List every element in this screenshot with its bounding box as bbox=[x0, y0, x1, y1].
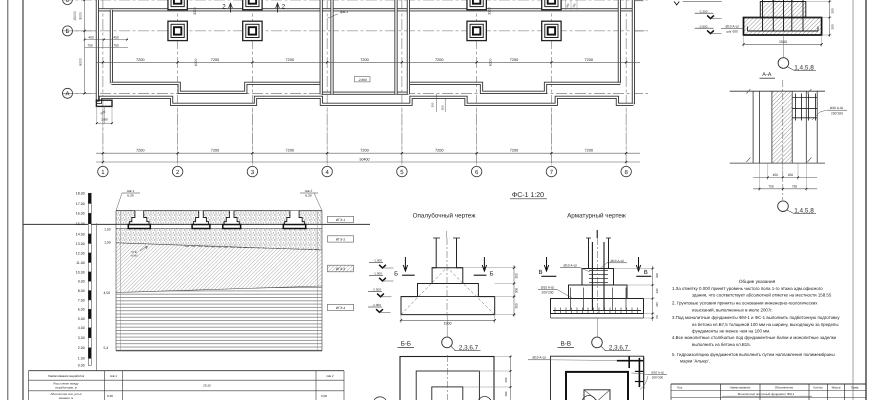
svg-text:16.00: 16.00 bbox=[76, 212, 85, 216]
svg-text:6,30: 6,30 bbox=[305, 194, 312, 198]
svg-text:6.00: 6.00 bbox=[78, 308, 85, 312]
svg-text:15000: 15000 bbox=[73, 11, 77, 21]
svg-text:750: 750 bbox=[768, 185, 774, 189]
V-V plan: mesh square bold bbox=[566, 372, 628, 400]
svg-text:скв 2: скв 2 bbox=[326, 374, 333, 378]
reinforcement: blinding layer line bbox=[551, 317, 644, 319]
plan: right exterior wall outer face bbox=[632, 0, 635, 104]
svg-text:29,15: 29,15 bbox=[203, 384, 211, 388]
svg-text:А: А bbox=[65, 91, 69, 98]
plan: column circle 3 bbox=[247, 166, 257, 176]
plan: left exterior wall outer face bbox=[96, 0, 99, 102]
reinforcement: leader circle 2,3,6,7 bbox=[596, 318, 598, 337]
top detail: hatched footing body bbox=[744, 0, 822, 35]
plan: column circle 8 bbox=[621, 166, 631, 176]
svg-text:13.00: 13.00 bbox=[76, 242, 85, 246]
svg-text:А-А: А-А bbox=[762, 72, 772, 78]
svg-text:Б: Б bbox=[490, 270, 494, 277]
svg-text:-1.000: -1.000 bbox=[373, 259, 382, 263]
svg-text:2: 2 bbox=[282, 4, 286, 11]
column footing at (477,31) bbox=[467, 21, 486, 40]
svg-text:2. Грунтовые условия приняты н: 2. Грунтовые условия приняты на основани… bbox=[672, 301, 818, 306]
reinforcement: step bars bbox=[570, 288, 572, 311]
geology: groundwater dashed line bbox=[185, 246, 322, 249]
formwork: section mark B right bbox=[482, 257, 486, 271]
A-A: hatched wall core bbox=[772, 91, 792, 163]
plan: top exterior wall (double line) bbox=[96, 8, 633, 11]
svg-text:3300: 3300 bbox=[193, 7, 197, 15]
svg-text:-1.900: -1.900 bbox=[373, 272, 382, 276]
svg-text:7.00: 7.00 bbox=[78, 298, 85, 302]
svg-text:7200: 7200 bbox=[286, 58, 294, 62]
column footing at (551,0) bbox=[542, 0, 561, 10]
svg-text:Ø10 А-Ш: Ø10 А-Ш bbox=[541, 285, 554, 289]
svg-text:Ø10 А-Ш: Ø10 А-Ш bbox=[563, 264, 576, 268]
svg-text:750: 750 bbox=[87, 43, 93, 47]
svg-text:7200: 7200 bbox=[435, 149, 443, 153]
plan: right side row leader stubs bbox=[634, 30, 644, 32]
svg-text:4.00: 4.00 bbox=[78, 326, 85, 330]
reinforcement: stirrup ladder bbox=[589, 270, 608, 272]
svg-text:7200: 7200 bbox=[510, 58, 518, 62]
svg-text:7200: 7200 bbox=[211, 58, 219, 62]
svg-text:Ø10 А-Ш: Ø10 А-Ш bbox=[725, 24, 738, 28]
svg-text:ИГЭ-2: ИГЭ-2 bbox=[336, 238, 346, 242]
plan: column circle 4 bbox=[322, 166, 332, 176]
reinforcement: center axis dashed bbox=[596, 238, 598, 316]
svg-text:750: 750 bbox=[792, 185, 798, 189]
svg-text:17.00: 17.00 bbox=[76, 202, 85, 206]
svg-text:выработками, м: выработками, м bbox=[55, 385, 76, 389]
sheet frame right border bbox=[865, 0, 867, 400]
svg-text:7200: 7200 bbox=[136, 149, 144, 153]
svg-text:Б-Б: Б-Б bbox=[401, 341, 411, 348]
plan: vertical grid line 1 bbox=[102, 0, 104, 166]
svg-text:300: 300 bbox=[514, 273, 518, 279]
svg-text:изысканий, выполненных в июле: изысканий, выполненных в июле 2007г. bbox=[692, 308, 773, 313]
plan: row circle В bbox=[63, 0, 73, 5]
sheet frame right inner line bbox=[852, 0, 854, 400]
svg-text:-2.800: -2.800 bbox=[372, 303, 381, 307]
formwork: dashed diagonals and axis bbox=[401, 268, 447, 315]
plan: bottom wall inner face with steps bbox=[111, 83, 620, 92]
svg-text:скв 1: скв 1 bbox=[127, 189, 135, 193]
plan: bottom overall dimension 50400 bbox=[96, 161, 640, 163]
svg-text:6,30: 6,30 bbox=[127, 194, 134, 198]
svg-text:14.00: 14.00 bbox=[76, 232, 85, 236]
svg-text:8,30: 8,30 bbox=[107, 394, 113, 398]
svg-text:3300: 3300 bbox=[488, 7, 492, 15]
A-A: rebar mesh bbox=[792, 97, 817, 99]
A-A: dims 450/450 bbox=[767, 163, 769, 180]
reinforcement: section mark V right bbox=[636, 257, 640, 271]
svg-text:50: 50 bbox=[655, 315, 659, 319]
plan: stair pit right wall (grid 5) bbox=[394, 0, 397, 94]
B-B plan: center axis bbox=[446, 355, 448, 400]
formwork: dimension 1500 bbox=[400, 315, 402, 324]
reinforcement: column bbox=[588, 238, 590, 269]
geology: buried stepped footing at x=201.0 bbox=[193, 211, 208, 225]
geology: buried stepped footing at x=294.5 bbox=[285, 211, 305, 225]
svg-text:9.00: 9.00 bbox=[78, 280, 85, 284]
svg-text:1.00: 1.00 bbox=[78, 357, 85, 361]
svg-text:В: В bbox=[644, 269, 648, 276]
svg-text:скважин, м: скважин, м bbox=[59, 396, 74, 400]
geology: borehole 1 axis bbox=[120, 211, 122, 351]
geology: IGE-4 label bbox=[328, 304, 354, 310]
formwork: column bbox=[435, 238, 437, 268]
svg-text:1,4,5,8: 1,4,5,8 bbox=[794, 207, 814, 214]
svg-text:выполнить из бетона кл.В15.: выполнить из бетона кл.В15. bbox=[692, 342, 751, 347]
formwork: stepped footing outline bbox=[401, 268, 495, 315]
plan: left vertical dimension line bbox=[84, 0, 86, 93]
plan: vertical grid line 2 bbox=[177, 0, 179, 166]
plan: bottom dimension line 7200s bbox=[96, 152, 640, 154]
top detail: right 300 dims bbox=[806, 1, 832, 3]
title block table bbox=[671, 383, 866, 385]
svg-text:7200: 7200 bbox=[435, 58, 443, 62]
svg-text:Б: Б bbox=[66, 28, 70, 35]
svg-text:Ø10 А-Ш: Ø10 А-Ш bbox=[610, 259, 623, 263]
svg-text:1500: 1500 bbox=[101, 118, 108, 122]
column footing at (178,0) bbox=[168, 0, 187, 10]
svg-text:200*200: 200*200 bbox=[831, 112, 843, 116]
geology: IGE-2 label bbox=[328, 236, 354, 242]
formwork: right 300 dim chain bbox=[495, 283, 516, 285]
svg-text:600: 600 bbox=[504, 377, 508, 382]
svg-text:7200: 7200 bbox=[585, 149, 593, 153]
plan: vertical grid line 4 bbox=[326, 0, 328, 166]
geology: buried stepped footing at x=139.3 bbox=[130, 211, 149, 225]
svg-text:3.Под монолитные фундаменты ФМ: 3.Под монолитные фундаменты ФМ-1 и ФС-1 … bbox=[672, 315, 840, 320]
svg-text:1500: 1500 bbox=[779, 40, 787, 44]
svg-text:-2.500: -2.500 bbox=[372, 287, 381, 291]
svg-text:18.00: 18.00 bbox=[76, 192, 85, 196]
geology: right edge bbox=[321, 211, 323, 351]
svg-text:Б: Б bbox=[394, 270, 398, 277]
svg-text:2.00: 2.00 bbox=[78, 346, 85, 350]
svg-text:Арматурный чертеж: Арматурный чертеж bbox=[567, 213, 627, 220]
top detail: dimension 1500 bbox=[743, 35, 745, 47]
svg-text:фм-1: фм-1 bbox=[340, 10, 348, 14]
plan: pit floor between grid 4 and 5 bbox=[321, 92, 408, 95]
geology: reference level line 15.00 bbox=[23, 223, 370, 225]
svg-text:1500: 1500 bbox=[444, 322, 452, 326]
reinforcement: bottom mesh with ticks bbox=[553, 310, 641, 312]
geology: borehole 2 axis bbox=[316, 211, 318, 351]
reinforcement: section mark V left bbox=[544, 257, 548, 271]
plan: left exterior wall inner face bbox=[110, 10, 113, 84]
plan: horizontal grid line row B bbox=[62, 30, 648, 32]
svg-text:Монолитный ленточный фундамент: Монолитный ленточный фундамент ФМ-1 bbox=[738, 392, 795, 396]
top detail: leader circle 1,4,5,8 bbox=[783, 35, 785, 58]
svg-text:4,50: 4,50 bbox=[103, 291, 110, 295]
svg-text:5. Гидроизоляцию фундаментов: 5. Гидроизоляцию фундаментов выполнить п… bbox=[672, 352, 835, 357]
svg-text:1,4,5,8: 1,4,5,8 bbox=[794, 64, 814, 71]
svg-text:12.00: 12.00 bbox=[76, 251, 85, 255]
svg-text:В-В: В-В bbox=[561, 341, 571, 348]
svg-text:5.00: 5.00 bbox=[78, 317, 85, 321]
svg-text:-2.300: -2.300 bbox=[699, 9, 708, 13]
geology: loam layer diagonal hatch bbox=[116, 243, 322, 293]
svg-text:фундаменты не менее чем на 100: фундаменты не менее чем на 100 мм. bbox=[692, 329, 770, 334]
geology: bottom line bbox=[116, 350, 322, 352]
formwork: section mark B left bbox=[403, 257, 407, 271]
svg-text:300: 300 bbox=[830, 24, 834, 29]
svg-text:ФС-1 1:20: ФС-1 1:20 bbox=[512, 192, 544, 199]
plan: vertical grid line 5 bbox=[401, 0, 403, 166]
plan: small dims near col 7 top bbox=[565, 0, 567, 10]
svg-text:300: 300 bbox=[504, 391, 508, 396]
plan: column circle 2 bbox=[172, 166, 182, 176]
geology: elevation ruler bar bbox=[88, 193, 91, 203]
reinforcement: stepped footing outline bbox=[551, 269, 644, 314]
column footing at (551,31) bbox=[542, 21, 561, 40]
geology: layer boundary 2 bbox=[116, 286, 322, 293]
top detail: footing outline bbox=[760, 0, 806, 18]
svg-text:ИГЭ-1: ИГЭ-1 bbox=[336, 218, 346, 222]
plan: vertical grid line 7 bbox=[550, 0, 552, 166]
svg-text:4.Все монолитные столбчатые по: 4.Все монолитные столбчатые под фундамен… bbox=[672, 335, 837, 340]
A-A: top edge bbox=[730, 90, 825, 92]
svg-text:8.00: 8.00 bbox=[78, 289, 85, 293]
V-V plan: outer square bbox=[551, 356, 644, 400]
svg-text:скв 2: скв 2 bbox=[305, 189, 313, 193]
plan: vertical grid line 8 bbox=[625, 0, 627, 166]
svg-text:200*200: 200*200 bbox=[652, 376, 664, 380]
svg-text:6000: 6000 bbox=[489, 58, 493, 66]
svg-text:300: 300 bbox=[514, 288, 518, 294]
plan: horizontal grid line row A bbox=[62, 92, 648, 94]
column footing at (252,31) bbox=[243, 21, 262, 40]
V-V plan: inner square with cross bbox=[584, 390, 610, 400]
A-A: leader circle 1,4,5,8 bbox=[778, 201, 789, 212]
svg-text:шаг 600: шаг 600 bbox=[726, 30, 738, 34]
svg-text:1,50: 1,50 bbox=[104, 241, 111, 245]
svg-text:7200: 7200 bbox=[360, 58, 368, 62]
geology: buried stepped footing at x=231.7 bbox=[224, 211, 239, 225]
A-A: bottom edge bbox=[730, 162, 825, 164]
svg-text:В: В bbox=[538, 269, 542, 276]
svg-text:-2.800: -2.800 bbox=[699, 24, 708, 28]
svg-text:Масса: Масса bbox=[832, 386, 841, 390]
svg-text:300: 300 bbox=[514, 303, 518, 309]
plan: section mark 2 right arrow bbox=[276, 3, 280, 12]
plan: vertical grid line 3 bbox=[251, 0, 253, 166]
geology: ground surface line bbox=[116, 210, 322, 212]
plan: column circle 1 bbox=[98, 166, 108, 176]
svg-text:скв 1: скв 1 bbox=[110, 374, 117, 378]
plan: 450/750 mini dimensions bbox=[85, 39, 128, 41]
svg-text:-4.065: -4.065 bbox=[130, 254, 138, 257]
svg-text:6000: 6000 bbox=[194, 58, 198, 66]
svg-text:3000: 3000 bbox=[79, 12, 83, 20]
svg-text:Поз.: Поз. bbox=[677, 386, 683, 390]
plan: step dims 350/650 witness lines bbox=[435, 94, 437, 112]
plan: section mark 2 left arrow bbox=[229, 3, 233, 12]
svg-text:Опалубочный чертеж: Опалубочный чертеж bbox=[413, 213, 477, 220]
V-V plan: corner rebar detail bbox=[617, 360, 644, 362]
svg-text:ИГЭ-3: ИГЭ-3 bbox=[336, 267, 346, 271]
reinforcement: longitudinal bars bbox=[591, 242, 593, 311]
svg-text:В: В bbox=[65, 0, 69, 4]
B-B plan: right dim bbox=[494, 356, 512, 358]
plan: stair pit left wall (grid 4) bbox=[320, 0, 323, 94]
plan: pit level label -2.800 bbox=[355, 77, 371, 82]
plan: right exterior wall inner face bbox=[618, 0, 621, 83]
A-A: center axis bbox=[782, 80, 784, 200]
svg-text:11.00: 11.00 bbox=[76, 261, 85, 265]
svg-text:2,3,6,7: 2,3,6,7 bbox=[459, 345, 479, 352]
svg-text:0,00: 0,00 bbox=[321, 394, 327, 398]
svg-text:750: 750 bbox=[113, 43, 119, 47]
column footing at (477,0) bbox=[467, 0, 486, 10]
sheet frame left inner border bbox=[22, 0, 24, 400]
callout circles cut at bottom edge bbox=[373, 397, 387, 400]
svg-text:7200: 7200 bbox=[510, 149, 518, 153]
svg-text:50400: 50400 bbox=[360, 158, 370, 162]
svg-text:Кол-во: Кол-во bbox=[813, 386, 823, 390]
svg-text:6000: 6000 bbox=[79, 58, 83, 66]
formwork: leader circle 2,3,6,7 bbox=[446, 315, 448, 338]
svg-text:ИГЭ-4: ИГЭ-4 bbox=[336, 306, 346, 310]
svg-text:-2.800: -2.800 bbox=[358, 78, 367, 82]
geology: clay layer horizontal lines bbox=[116, 286, 322, 351]
reinforcement: right dim chain bbox=[614, 268, 655, 270]
svg-text:450: 450 bbox=[788, 173, 794, 177]
svg-text:2,3,6,7: 2,3,6,7 bbox=[609, 345, 629, 352]
A-A: dims 750/750 bbox=[758, 163, 760, 191]
A-A: break marks bbox=[746, 89, 811, 94]
svg-text:7200: 7200 bbox=[286, 149, 294, 153]
plan: bottom-left corner dims 900/1500 bbox=[96, 106, 98, 124]
A-A: mesh label leader bbox=[812, 110, 826, 120]
plan: row circle А bbox=[63, 88, 73, 98]
B-B plan: outer square bbox=[400, 357, 494, 400]
geology: left edge bbox=[115, 211, 117, 351]
svg-text:300: 300 bbox=[830, 8, 834, 13]
svg-text:Общие указания: Общие указания bbox=[739, 279, 776, 284]
plan: column circle 5 bbox=[397, 166, 407, 176]
svg-text:марки 'Альюр'.: марки 'Альюр'. bbox=[680, 359, 710, 364]
svg-text:7200: 7200 bbox=[585, 58, 593, 62]
top detail: bottom mesh bbox=[748, 30, 819, 32]
column footing at (178,31) bbox=[168, 21, 187, 40]
svg-text:Ø10 А-Ш: Ø10 А-Ш bbox=[830, 106, 843, 110]
sheet frame left outer border bbox=[7, 0, 9, 400]
column footing at (252,0) bbox=[243, 0, 262, 10]
plan: bottom-left corner pad bbox=[96, 100, 112, 106]
svg-text:Наименование: Наименование bbox=[730, 386, 751, 390]
svg-text:345: 345 bbox=[655, 302, 659, 307]
geology: hatch top boundary sloped bbox=[116, 243, 322, 250]
svg-text:Ø10 А-Ш: Ø10 А-Ш bbox=[651, 370, 664, 374]
svg-text:100: 100 bbox=[655, 273, 659, 278]
geology: sand layer B speckles bbox=[116, 228, 322, 250]
svg-text:Ø10 А-Ш: Ø10 А-Ш bbox=[532, 356, 545, 360]
top detail: elevation marks bbox=[683, 1, 722, 3]
svg-text:350: 350 bbox=[431, 102, 435, 107]
svg-text:из бетона кл.В7,5 толщиной 100: из бетона кл.В7,5 толщиной 100 мм на шир… bbox=[692, 322, 839, 327]
plan: vertical grid line 6 bbox=[476, 0, 478, 166]
geology: IGE-3 label bbox=[328, 265, 354, 272]
svg-text:7200: 7200 bbox=[136, 58, 144, 62]
svg-text:15.00: 15.00 bbox=[76, 222, 85, 226]
svg-text:здания, что соответствует абсо: здания, что соответствует абсолютной отм… bbox=[692, 293, 832, 298]
svg-text:Обозначение: Обозначение bbox=[775, 386, 794, 390]
svg-text:1,50: 1,50 bbox=[104, 227, 111, 231]
svg-text:3.00: 3.00 bbox=[78, 336, 85, 340]
A-A: wall face lines bbox=[752, 91, 754, 163]
plan: bottom wall outer face with notches bbox=[96, 97, 633, 104]
svg-text:450: 450 bbox=[88, 35, 94, 39]
B-B plan: middle square bbox=[416, 371, 479, 400]
svg-text:2: 2 bbox=[222, 4, 226, 11]
geology: slab band bottom line bbox=[116, 227, 322, 229]
svg-text:7200: 7200 bbox=[360, 149, 368, 153]
plan: column circle 6 bbox=[471, 166, 481, 176]
svg-text:5,4: 5,4 bbox=[104, 346, 109, 350]
svg-text:7200: 7200 bbox=[211, 149, 219, 153]
geology: sand layer A speckles bbox=[116, 211, 322, 224]
geology: IGE-1 label bbox=[328, 216, 354, 222]
svg-text:450: 450 bbox=[113, 35, 119, 39]
svg-text:Наименование выработок: Наименование выработок bbox=[48, 374, 85, 378]
plan: row circle Б bbox=[63, 26, 73, 36]
svg-text:УГВ: УГВ bbox=[131, 250, 136, 254]
geology: scale right line bbox=[96, 223, 98, 370]
plan: horizontal grid line row V bbox=[62, 0, 648, 1]
B-B plan: inner square bbox=[432, 387, 463, 400]
svg-text:10.00: 10.00 bbox=[76, 270, 85, 274]
svg-text:230: 230 bbox=[655, 288, 659, 293]
plan: column circle 7 bbox=[546, 166, 556, 176]
svg-text:Прим.: Прим. bbox=[851, 386, 860, 390]
table: borehole table bbox=[29, 370, 345, 372]
svg-text:200*200: 200*200 bbox=[542, 290, 554, 294]
svg-text:1.За отметку 0.000 принят уров: 1.За отметку 0.000 принят уровень чистог… bbox=[672, 286, 823, 291]
top detail: vertical rebar bbox=[762, 0, 764, 31]
svg-text:450: 450 bbox=[773, 173, 779, 177]
plan: interior dimension line bbox=[96, 61, 640, 63]
svg-text:0.00: 0.00 bbox=[78, 364, 85, 368]
svg-text:650: 650 bbox=[440, 105, 444, 110]
